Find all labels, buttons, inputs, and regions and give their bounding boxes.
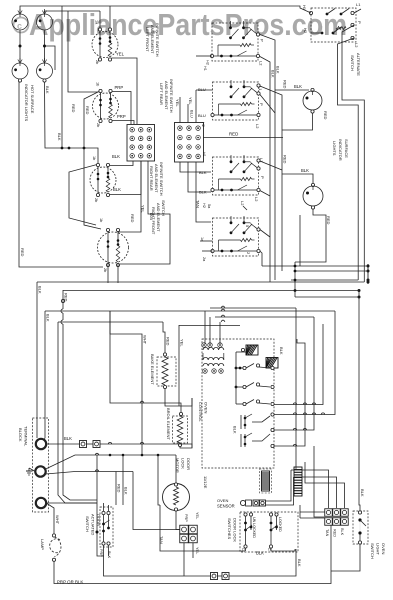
bus y271 xyxy=(295,270,368,272)
feed wires into oven control top xyxy=(204,311,206,344)
svg-text:SWITCHES: SWITCHES xyxy=(227,518,232,539)
wire bus C into lug1 xyxy=(44,438,45,440)
svg-text:HOT SURFACE: HOT SURFACE xyxy=(30,85,35,114)
svg-text:L1: L1 xyxy=(356,2,361,7)
wire right front top from yel xyxy=(118,161,141,232)
svg-text:C: C xyxy=(241,548,245,551)
wire y308 riser xyxy=(295,308,297,470)
svg-text:L2: L2 xyxy=(259,61,264,66)
svg-text:BAKE ELEMENT: BAKE ELEMENT xyxy=(150,354,155,385)
svg-text:BLK: BLK xyxy=(199,190,207,195)
wire oven light switch to bottom xyxy=(331,544,360,571)
wire WHT down xyxy=(110,311,142,455)
oven control connector pins left xyxy=(262,471,270,491)
wire light1 to light3 xyxy=(19,30,21,63)
svg-text:RED: RED xyxy=(333,529,337,537)
svg-text:BLK: BLK xyxy=(38,286,43,294)
surface indicator light upper xyxy=(311,88,314,91)
svg-text:BLU: BLU xyxy=(198,87,206,92)
wire right front feeds from block1 xyxy=(120,161,170,264)
wire lug2 diagonals xyxy=(46,455,176,469)
svg-text:1b: 1b xyxy=(92,156,96,160)
surface unit switch block 3 xyxy=(213,157,259,195)
wire L2 label link switch4 xyxy=(243,206,247,210)
terminal below light lower xyxy=(311,206,314,209)
wire from switch4 top 5 diagonal xyxy=(260,230,270,238)
svg-text:SWITCH: SWITCH xyxy=(85,516,90,532)
svg-text:BLK: BLK xyxy=(45,86,50,94)
terminal below light upper xyxy=(311,110,314,113)
wire RED stub down xyxy=(115,472,117,506)
svg-text:L2: L2 xyxy=(354,43,359,48)
infinite switch right front xyxy=(98,232,129,263)
svg-text:LAMP: LAMP xyxy=(40,539,45,550)
svg-text:TAN: TAN xyxy=(149,212,154,220)
bus A vertical xyxy=(36,282,38,438)
svg-text:RED: RED xyxy=(130,214,135,223)
svg-text:BLK: BLK xyxy=(279,347,284,355)
alternate switch box xyxy=(311,8,356,42)
svg-text:H2: H2 xyxy=(202,203,206,208)
wire terminal4 riser xyxy=(274,339,305,446)
svg-text:LIGHTS: LIGHTS xyxy=(332,141,337,156)
svg-text:BLK: BLK xyxy=(294,84,302,89)
svg-text:RED: RED xyxy=(229,132,238,137)
bus B RED y290 xyxy=(63,290,359,292)
transformer secondary xyxy=(203,357,224,360)
svg-text:RED: RED xyxy=(323,111,328,120)
surface unit switch block 2 xyxy=(213,82,259,120)
wire from switch1 L2 down right xyxy=(260,57,270,283)
svg-text:BLK: BLK xyxy=(64,436,72,441)
wire from switch3 L1 to red bus riser xyxy=(260,161,282,170)
svg-text:RED: RED xyxy=(326,216,331,225)
wire bake bottom xyxy=(165,389,192,406)
oven control dashed box xyxy=(202,339,274,468)
bus C BLK y311 xyxy=(44,311,46,438)
svg-text:PRP: PRP xyxy=(117,114,126,119)
wire vertical x68 xyxy=(68,11,99,92)
fuse square bottom 1 xyxy=(211,573,218,580)
wire door switch down to bus xyxy=(104,545,297,576)
wire YEL vertical xyxy=(178,325,180,406)
wire PRP bottom to block xyxy=(112,121,134,125)
wire terminal1 to bus D riser xyxy=(274,324,323,405)
wire right vertical down to oven light switch xyxy=(359,291,360,512)
svg-text:TERMINAL: TERMINAL xyxy=(24,426,29,447)
terminal below light 3 xyxy=(18,79,21,82)
wire junction to x55 drop xyxy=(45,46,56,70)
junction node lights xyxy=(19,45,22,48)
wire alt switch L2 down right run xyxy=(338,38,359,280)
svg-text:UN LOCKED: UN LOCKED xyxy=(252,517,256,538)
svg-text:RED: RED xyxy=(20,248,25,257)
svg-text:BROIL ELEMENT: BROIL ELEMENT xyxy=(166,408,171,440)
svg-text:1b: 1b xyxy=(99,218,103,222)
bus y317 xyxy=(215,316,314,318)
svg-text:SWITCH: SWITCH xyxy=(350,55,355,71)
wire x158 corner down xyxy=(158,455,160,505)
oven control connector pins right xyxy=(294,467,302,496)
svg-text:LOCKED: LOCKED xyxy=(278,517,282,532)
svg-text:BLK: BLK xyxy=(57,133,62,141)
bus B vertical with hops xyxy=(62,290,64,309)
svg-text:SURFACE: SURFACE xyxy=(344,139,349,158)
terminal lug 1 xyxy=(36,439,46,449)
svg-text:H2: H2 xyxy=(201,122,205,127)
wire block2 to switch4 tan xyxy=(196,162,211,222)
wire PRP top to block xyxy=(112,92,131,125)
wire left lower риser xyxy=(314,446,325,517)
svg-text:P: P xyxy=(260,176,265,179)
wire light upper bottom to left bus xyxy=(282,113,313,130)
bus y308 xyxy=(210,307,296,309)
wire bake drop xyxy=(163,322,165,353)
svg-text:L2: L2 xyxy=(255,124,260,129)
svg-text:H1: H1 xyxy=(202,152,206,157)
svg-text:LIGHT: LIGHT xyxy=(376,543,381,555)
wires door lock switches down xyxy=(245,548,247,551)
transformer primary xyxy=(202,343,207,348)
connector row 1 xyxy=(180,525,189,534)
svg-text:SENSOR: SENSOR xyxy=(217,504,235,509)
infinite switch left rear xyxy=(93,93,119,119)
svg-text:BLK: BLK xyxy=(271,70,276,78)
bus C to nest hops xyxy=(221,309,225,311)
terminal on bus B xyxy=(61,299,64,302)
oven lamp xyxy=(52,534,55,537)
wire motor to connector xyxy=(176,511,180,529)
svg-text:TAN: TAN xyxy=(196,200,201,208)
wire lug1 to fuses to broil feed xyxy=(46,443,79,445)
wires sensor to risers xyxy=(266,470,292,501)
ground symbol xyxy=(28,468,30,471)
relay contact 1 xyxy=(236,367,243,369)
oven light switch box xyxy=(353,511,368,544)
svg-text:WHT: WHT xyxy=(55,515,60,525)
svg-text:WHT: WHT xyxy=(143,335,148,345)
door lock relay contact upper xyxy=(240,415,242,429)
svg-text:BLK: BLK xyxy=(301,168,309,173)
hot surface indicator light 4 xyxy=(37,63,53,79)
wire BLK into light1 xyxy=(275,89,309,91)
terminal L1 switch2 xyxy=(257,84,260,87)
surface unit switch block 4 xyxy=(213,218,259,256)
svg-text:L2: L2 xyxy=(240,201,245,206)
svg-text:LEFT FRONT: LEFT FRONT xyxy=(145,27,150,52)
svg-text:RED: RED xyxy=(85,106,90,115)
svg-text:YEL: YEL xyxy=(195,512,199,519)
svg-text:OVEN: OVEN xyxy=(204,402,209,413)
svg-text:BLK: BLK xyxy=(46,314,51,322)
wire from switch1 P up right xyxy=(260,35,275,281)
svg-text:BLK: BLK xyxy=(256,551,264,556)
wire broil bottom xyxy=(180,398,192,448)
terminal below light 4 xyxy=(43,79,46,82)
wire alt switch P down right run xyxy=(342,25,364,282)
connector block 2 xyxy=(175,123,204,163)
svg-text:CONTROL: CONTROL xyxy=(198,402,203,422)
terminal lug 3 xyxy=(36,498,46,508)
relay coil 2 xyxy=(266,358,278,369)
fuse square 1 xyxy=(80,441,87,448)
relay contact 3 xyxy=(236,403,243,405)
surface unit switch block 1 xyxy=(212,23,258,61)
wire diagonals left rear to left buses xyxy=(84,92,101,230)
wires into bottom right connector from left xyxy=(300,511,325,513)
wire H2 switch1 left xyxy=(196,55,212,57)
hot surface indicator light 2 xyxy=(37,14,53,30)
wire big box outline xyxy=(160,505,245,551)
wire left front top feeds xyxy=(99,11,101,29)
bus y297 xyxy=(295,296,359,298)
oven light switch xyxy=(358,511,361,514)
svg-text:YEL: YEL xyxy=(180,339,185,347)
svg-text:BLU: BLU xyxy=(198,113,206,118)
wire light2 to light4 xyxy=(44,30,46,63)
hot surface indicator light 1 xyxy=(12,14,28,30)
terminal lug 2 xyxy=(35,466,45,476)
svg-text:P: P xyxy=(260,39,265,42)
wires block2 bottom to switch3 xyxy=(180,162,211,172)
wires block2 top feeds xyxy=(179,97,181,123)
svg-text:BLK: BLK xyxy=(107,551,111,559)
svg-text:RED: RED xyxy=(117,484,122,493)
wire BLK from light4 down then right to right-rear switch xyxy=(45,82,99,164)
svg-text:P: P xyxy=(259,103,264,106)
wire top bus 2 xyxy=(45,11,101,14)
infinite switch left front xyxy=(92,32,118,58)
wire light lower left riser xyxy=(299,215,301,266)
door actuated switch xyxy=(100,507,113,547)
wire x133 down xyxy=(133,472,180,530)
hot surface indicator light 3 xyxy=(12,63,28,79)
svg-text:2b: 2b xyxy=(96,123,100,127)
svg-text:BLK: BLK xyxy=(199,170,207,175)
terminal L1 switch3 xyxy=(257,159,260,162)
alternate switch terminals right xyxy=(351,11,354,14)
wire vertical x62 from top bus xyxy=(61,6,63,148)
junction column right xyxy=(367,265,370,268)
door lock switches box xyxy=(240,512,298,552)
svg-text:LOCK: LOCK xyxy=(181,458,186,469)
svg-text:2b: 2b xyxy=(103,268,107,272)
svg-text:INDICATOR LIGHTS: INDICATOR LIGHTS xyxy=(24,84,29,122)
wire from switch3 L2 diagonal xyxy=(260,191,270,197)
relay contact 2 xyxy=(236,386,243,388)
wire lamp to bottom bus xyxy=(54,561,331,583)
svg-text:2b: 2b xyxy=(94,198,98,202)
wire door switch stub xyxy=(108,545,110,556)
svg-text:H1: H1 xyxy=(203,66,207,71)
svg-text:YEL: YEL xyxy=(188,97,193,105)
svg-text:YEL: YEL xyxy=(195,547,199,554)
svg-text:BLK: BLK xyxy=(112,154,120,159)
bottom right connector grid xyxy=(325,509,333,517)
wire light lower to risers xyxy=(295,209,326,262)
fuse square bottom 2 xyxy=(222,573,229,580)
svg-text:RED: RED xyxy=(283,80,288,89)
svg-text:BLK: BLK xyxy=(297,559,302,567)
wire BLK stub down xyxy=(122,455,124,505)
oven sensor symbol xyxy=(240,500,245,505)
bus y266 xyxy=(262,265,368,267)
svg-text:BLK: BLK xyxy=(233,426,238,434)
svg-text:OVEN: OVEN xyxy=(217,498,228,503)
svg-text:1b: 1b xyxy=(96,82,100,86)
svg-text:RED: RED xyxy=(166,337,171,346)
bus D y322 xyxy=(58,322,97,503)
svg-text:PRP: PRP xyxy=(115,85,124,90)
wire into motor xyxy=(175,455,177,483)
svg-text:C: C xyxy=(267,548,271,551)
relay coil 1 xyxy=(246,345,258,355)
svg-text:YEL: YEL xyxy=(141,205,146,213)
svg-text:PRP: PRP xyxy=(99,549,103,557)
fuse square 2 xyxy=(93,441,100,448)
svg-text:LEFT REAR: LEFT REAR xyxy=(159,83,164,105)
svg-text:TAN: TAN xyxy=(325,529,329,537)
svg-text:DOOR: DOOR xyxy=(186,458,191,470)
terminal block dashed box xyxy=(33,418,49,512)
wire nest lower to bottom connector xyxy=(291,470,329,508)
wire connector down xyxy=(183,543,185,576)
broil element xyxy=(179,412,182,415)
svg-text:YEL: YEL xyxy=(116,52,125,57)
wire terminal2 to bus C riser xyxy=(274,311,335,415)
wire from switch4 bottom 2 to bus xyxy=(260,251,262,266)
door lock relay contact lower xyxy=(240,434,242,447)
junction x295 xyxy=(294,262,296,297)
bus A BLK y282 xyxy=(37,281,364,283)
svg-text:OVEN: OVEN xyxy=(381,543,386,554)
RED bus between switch blocks xyxy=(203,137,283,139)
wire YEL from left front switch xyxy=(112,58,137,124)
bus y280 xyxy=(291,279,358,281)
wire into light lower xyxy=(282,174,313,184)
wire from switch2 L1 diagonal xyxy=(260,86,282,271)
alternate switch terminal left xyxy=(309,11,312,14)
wire from switch2 P diagonal xyxy=(260,95,275,114)
svg-text:BLU: BLU xyxy=(190,110,195,118)
wire lug3 to lamp and door switch xyxy=(46,503,54,534)
svg-text:RED: RED xyxy=(71,104,76,113)
svg-text:L2: L2 xyxy=(254,197,259,202)
watermark AppliancePartsPros.com xyxy=(14,18,29,33)
svg-text:BLK: BLK xyxy=(124,487,129,495)
wire terminal3 to y317 riser xyxy=(274,317,314,430)
wire right front bottom to bottom bus xyxy=(107,264,109,283)
wire right rear top to block1 xyxy=(110,161,133,166)
transformer terminals bottom xyxy=(203,369,208,374)
infinite switch right rear xyxy=(90,167,116,193)
svg-text:ACTUATED: ACTUATED xyxy=(91,514,96,535)
svg-text:P: P xyxy=(357,21,362,24)
svg-text:DOOR LOCK: DOOR LOCK xyxy=(233,518,238,542)
bake element xyxy=(163,353,166,356)
bus y325 segment xyxy=(179,325,240,327)
wire left long RED down to right-front switch xyxy=(19,82,103,267)
svg-text:SWITCH: SWITCH xyxy=(370,543,375,559)
connector block 1 xyxy=(127,125,155,162)
svg-text:BLK: BLK xyxy=(360,489,365,497)
door lock switch left xyxy=(244,513,247,516)
svg-text:YEL: YEL xyxy=(175,99,180,107)
svg-text:H2: H2 xyxy=(206,60,210,65)
svg-text:AppliancePartsPros.com: AppliancePartsPros.com xyxy=(29,7,347,42)
wire x97 down to door switch area xyxy=(97,455,104,556)
wire vertical x69 xyxy=(69,165,97,226)
svg-text:ALTERNATE: ALTERNATE xyxy=(356,53,361,76)
wire broil top xyxy=(110,311,181,413)
wire switch4 left stubs xyxy=(200,240,213,242)
door lock motor xyxy=(163,484,190,511)
door lock switch right xyxy=(269,513,272,516)
wire right rear bottom to block1 xyxy=(110,161,141,195)
svg-text:BLK: BLK xyxy=(340,528,344,536)
wire alt L1 right xyxy=(354,9,361,13)
surface indicator light lower xyxy=(311,183,314,186)
wire connector TAN column down xyxy=(330,525,332,571)
wire top bus L1 xyxy=(20,6,110,14)
svg-text:RED: RED xyxy=(283,155,288,164)
svg-text:H2: H2 xyxy=(303,28,308,34)
svg-text:PRP OR BLK: PRP OR BLK xyxy=(57,580,83,585)
connector row 2 xyxy=(180,534,189,543)
alternate switch contacts xyxy=(326,13,329,16)
svg-text:2b: 2b xyxy=(95,60,99,64)
wire top bus to alt switch H1 xyxy=(110,6,311,13)
svg-text:BLOCK: BLOCK xyxy=(18,428,23,442)
svg-text:11/12E: 11/12E xyxy=(203,476,208,489)
svg-text:BLK: BLK xyxy=(113,187,121,192)
wire BLU switch2 xyxy=(196,89,213,91)
svg-text:INDICATOR: INDICATOR xyxy=(338,139,343,161)
svg-text:PRP: PRP xyxy=(184,514,188,522)
junction wires oven control xyxy=(235,367,238,370)
svg-text:RIGHT REAR: RIGHT REAR xyxy=(149,166,154,191)
